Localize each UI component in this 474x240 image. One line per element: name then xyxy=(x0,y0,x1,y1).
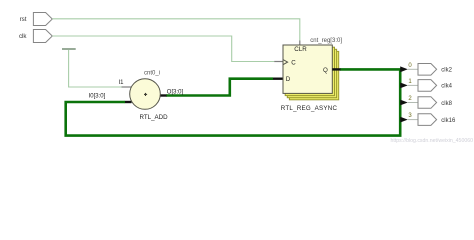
tap 2 xyxy=(400,96,418,105)
pin stub CLR xyxy=(299,41,301,46)
bus O[3:0] adder to D xyxy=(166,79,273,96)
svg-text:clk4: clk4 xyxy=(441,84,452,90)
input port clk xyxy=(19,30,52,43)
svg-text:cnt0_i: cnt0_i xyxy=(144,71,160,77)
svg-text:I0[3:0]: I0[3:0] xyxy=(89,93,106,99)
wire clk to C xyxy=(52,36,274,62)
svg-text:I1: I1 xyxy=(118,80,124,86)
pin stub I0 xyxy=(125,101,132,103)
register cnt_reg[3:0] RTL_REG_ASYNC xyxy=(281,38,343,112)
bus Q feedback loop xyxy=(66,69,401,135)
pin stub D xyxy=(273,77,283,79)
pin stub C xyxy=(274,61,283,63)
svg-text:D: D xyxy=(286,76,291,83)
tap 3 xyxy=(400,113,418,122)
wire const to I1 xyxy=(69,50,122,87)
output port clk16 xyxy=(418,114,456,126)
svg-text:https://blog.csdn.net/weixin_4: https://blog.csdn.net/weixin_450060 xyxy=(391,138,474,144)
svg-text:clk2: clk2 xyxy=(441,68,452,74)
tap 1 xyxy=(400,79,418,88)
output port clk8 xyxy=(418,97,453,109)
svg-text:clk8: clk8 xyxy=(441,101,452,107)
constant 1 (power bar) xyxy=(62,48,76,50)
svg-text:clk16: clk16 xyxy=(441,118,456,124)
output port clk2 xyxy=(418,64,453,76)
svg-text:C: C xyxy=(291,60,296,67)
pin stub I1 xyxy=(122,86,132,88)
svg-text:O[3:0]: O[3:0] xyxy=(167,90,184,96)
svg-text:RTL_ADD: RTL_ADD xyxy=(140,114,169,121)
output port clk4 xyxy=(418,80,453,92)
wire rst to CLR xyxy=(52,19,299,41)
svg-text:rst: rst xyxy=(20,16,27,23)
adder U cnt0_i RTL_ADD xyxy=(89,71,184,121)
svg-text:RTL_REG_ASYNC: RTL_REG_ASYNC xyxy=(281,105,338,112)
svg-text:CLR: CLR xyxy=(294,46,307,53)
svg-text:clk: clk xyxy=(19,33,27,40)
svg-text:cnt_reg[3:0]: cnt_reg[3:0] xyxy=(310,38,342,44)
pin stub Q xyxy=(332,68,340,70)
pin stub O xyxy=(160,94,167,96)
tap 0 xyxy=(400,63,418,72)
input port rst xyxy=(20,13,53,26)
svg-text:Q: Q xyxy=(323,67,328,74)
